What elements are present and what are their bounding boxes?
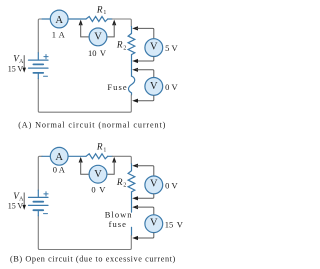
battery stub bottom A bbox=[37, 74, 39, 79]
voltmeter V5 top lead A bbox=[136, 28, 154, 38]
svg-text:V: V bbox=[150, 179, 158, 190]
voltmeter V5 circle A bbox=[145, 39, 163, 57]
wire ammeter to R1 A bbox=[68, 18, 86, 20]
wire top-right corner B bbox=[112, 156, 131, 164]
wire R1 right lead B bbox=[108, 155, 113, 157]
voltmeter V10 leads A bbox=[81, 24, 115, 37]
battery plate long2 A bbox=[29, 67, 49, 69]
svg-text:V: V bbox=[150, 41, 158, 52]
voltmeter V0 bottom arrow A bbox=[132, 99, 138, 103]
voltmeter VB5 top lead B bbox=[136, 166, 154, 176]
svg-text:V: V bbox=[150, 218, 158, 229]
battery plate short1 A bbox=[33, 63, 43, 65]
wire R1 right lead A bbox=[108, 18, 113, 20]
battery minus sign A bbox=[44, 75, 48, 77]
svg-text:0V: 0V bbox=[165, 180, 178, 190]
voltmeter VB5 top arrow B bbox=[132, 164, 138, 168]
svg-text:R: R bbox=[96, 142, 103, 152]
svg-text:A: A bbox=[55, 152, 63, 163]
voltmeter V5 top arrow A bbox=[132, 26, 138, 30]
voltmeter VB10 leads B bbox=[81, 161, 115, 174]
voltmeter VB0 bottom lead B bbox=[136, 233, 154, 238]
voltmeter VB5 circle B bbox=[145, 176, 163, 194]
battery plate long1 A bbox=[29, 59, 49, 61]
wire ammeter left lead B bbox=[42, 155, 50, 157]
resistor R2 zigzag A bbox=[128, 27, 135, 77]
voltmeter V0 top arrow A bbox=[132, 68, 138, 72]
svg-text:V: V bbox=[150, 81, 158, 92]
battery plate long1 B bbox=[29, 196, 49, 198]
voltmeter V5 bottom arrow A bbox=[132, 59, 138, 63]
svg-text:0A: 0A bbox=[53, 164, 66, 174]
wire top-left corner A bbox=[38, 19, 42, 53]
battery plus sign B bbox=[44, 192, 48, 196]
svg-text:15 V: 15 V bbox=[8, 202, 24, 211]
battery VA stub top B bbox=[37, 190, 39, 197]
svg-text:fuse: fuse bbox=[109, 219, 127, 229]
voltmeter VB10 circle B bbox=[89, 165, 107, 183]
voltmeter V10 probe arrows A bbox=[79, 20, 83, 26]
svg-text:Blown: Blown bbox=[105, 210, 133, 220]
voltmeter VB0 top lead B bbox=[136, 207, 154, 215]
voltmeter VB5 bottom arrow B bbox=[132, 196, 138, 200]
svg-text:A: A bbox=[55, 15, 63, 26]
svg-text:2: 2 bbox=[123, 183, 126, 189]
svg-text:1A: 1A bbox=[52, 29, 66, 39]
resistor R1 zigzag A bbox=[86, 17, 108, 22]
voltmeter V0 circle A bbox=[145, 78, 163, 96]
svg-text:V: V bbox=[94, 169, 102, 180]
resistor R2 zigzag B bbox=[128, 164, 135, 212]
svg-text:2: 2 bbox=[123, 45, 126, 51]
wire bottom-right + bottom + left-up A bbox=[38, 79, 131, 113]
svg-text:R: R bbox=[96, 4, 103, 14]
battery VA stub top A bbox=[37, 53, 39, 60]
svg-text:1: 1 bbox=[103, 147, 106, 153]
svg-text:0V: 0V bbox=[91, 184, 106, 194]
wire bottom-right + bottom + left-up B bbox=[38, 216, 131, 250]
resistor R1 zigzag B bbox=[86, 154, 108, 159]
battery plus sign A bbox=[44, 55, 48, 59]
svg-text:0V: 0V bbox=[165, 82, 178, 92]
svg-text:V: V bbox=[94, 32, 102, 43]
svg-text:1: 1 bbox=[103, 10, 106, 16]
voltmeter VB0 top arrow B bbox=[132, 205, 138, 209]
voltmeter VB5 bottom lead B bbox=[136, 194, 154, 199]
wire top-left corner B bbox=[38, 156, 42, 190]
blown fuse lower stub B bbox=[131, 227, 133, 235]
voltmeter V0 top lead A bbox=[136, 70, 154, 78]
battery plate long2 B bbox=[29, 204, 49, 206]
voltmeter V5 bottom lead A bbox=[136, 57, 154, 62]
svg-text:R: R bbox=[116, 40, 123, 50]
battery stub bottom B bbox=[37, 211, 39, 216]
battery plate short2 A bbox=[33, 72, 43, 74]
svg-text:15 V: 15 V bbox=[8, 64, 24, 73]
wire top-right corner A bbox=[112, 19, 131, 27]
svg-text:R: R bbox=[116, 177, 123, 187]
wire ammeter left lead A bbox=[42, 18, 50, 20]
svg-text:(B) Open circuit (due to exces: (B) Open circuit (due to excessive curre… bbox=[10, 254, 176, 263]
svg-text:5V: 5V bbox=[165, 43, 178, 53]
wire ammeter to R1 B bbox=[68, 155, 86, 157]
voltmeter V0 bottom lead A bbox=[136, 95, 154, 100]
svg-text:(A) Normal circuit (normal cur: (A) Normal circuit (normal current) bbox=[18, 121, 166, 130]
ammeter A1 circle bbox=[50, 10, 68, 28]
battery minus sign B bbox=[44, 213, 48, 215]
battery arrow B bbox=[22, 193, 26, 210]
svg-text:Fuse: Fuse bbox=[107, 82, 127, 92]
voltmeter VB0 circle B bbox=[145, 215, 163, 233]
voltmeter V10 circle A bbox=[89, 28, 107, 46]
battery arrow A bbox=[22, 55, 26, 72]
battery plate short1 B bbox=[33, 201, 43, 203]
ammeter A2 circle bbox=[50, 147, 68, 165]
voltmeter VB10 probe arrows B bbox=[79, 157, 83, 163]
fuse S-curve A bbox=[128, 76, 134, 95]
voltmeter VB0 bottom arrow B bbox=[132, 236, 138, 240]
battery plate short2 B bbox=[33, 209, 43, 211]
